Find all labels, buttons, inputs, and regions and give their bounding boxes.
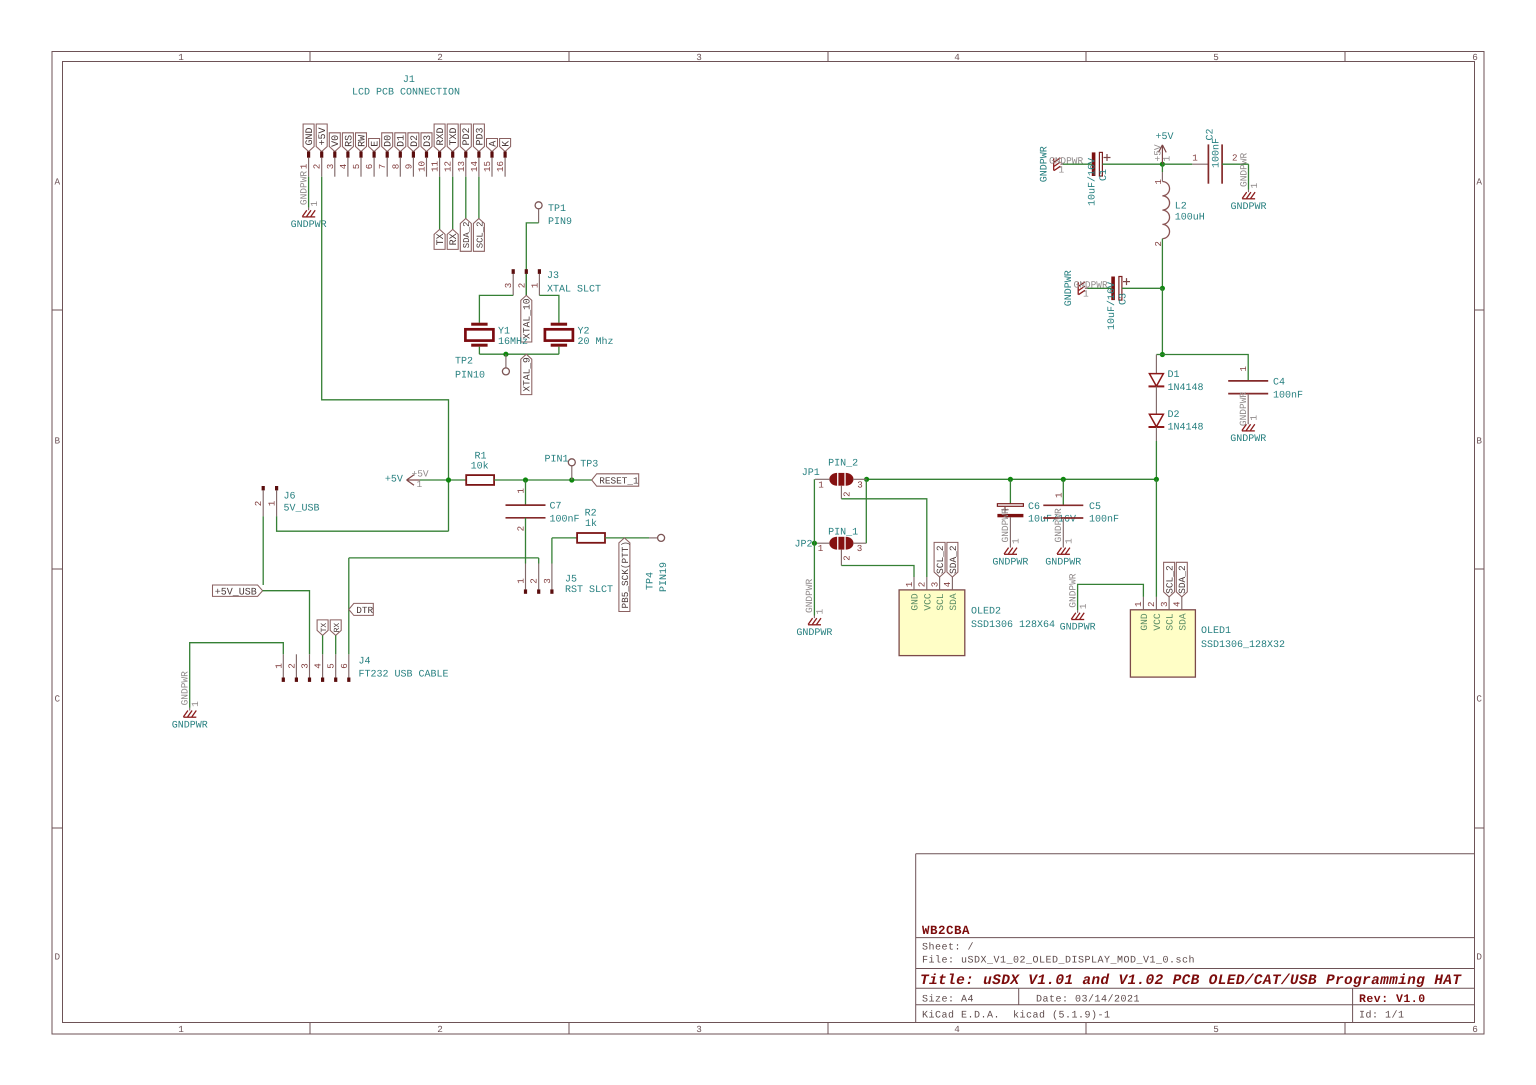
svg-text:100nF: 100nF	[550, 514, 580, 525]
svg-text:100nF: 100nF	[1089, 515, 1119, 526]
svg-text:Rev: V1.0: Rev: V1.0	[1359, 993, 1426, 1006]
svg-text:GNDPWR: GNDPWR	[796, 628, 832, 639]
svg-text:PIN9: PIN9	[548, 217, 572, 228]
svg-text:B: B	[55, 436, 61, 447]
svg-text:K: K	[502, 141, 513, 147]
svg-text:GNDPWR: GNDPWR	[1230, 202, 1266, 213]
svg-text:6: 6	[339, 663, 350, 669]
svg-text:4: 4	[942, 581, 953, 587]
svg-text:+5V: +5V	[318, 127, 329, 145]
svg-text:V0: V0	[331, 135, 342, 147]
svg-text:11: 11	[430, 161, 441, 173]
svg-text:GNDPWR: GNDPWR	[1238, 392, 1249, 427]
svg-text:4: 4	[1172, 601, 1183, 607]
svg-text:2: 2	[312, 164, 323, 170]
svg-text:Id: 1/1: Id: 1/1	[1359, 1010, 1405, 1022]
svg-text:1: 1	[178, 52, 184, 63]
svg-text:RX: RX	[333, 623, 342, 633]
svg-text:1N4148: 1N4148	[1168, 423, 1204, 434]
svg-text:3: 3	[300, 663, 311, 669]
svg-text:GNDPWR: GNDPWR	[172, 720, 208, 731]
svg-text:Y2: Y2	[578, 326, 590, 337]
svg-text:TXD: TXD	[449, 127, 460, 145]
svg-text:L2: L2	[1175, 201, 1187, 212]
svg-text:SCL_2: SCL_2	[935, 545, 946, 574]
svg-text:VCC: VCC	[922, 593, 933, 611]
svg-text:5: 5	[351, 164, 362, 170]
svg-text:16MHz: 16MHz	[498, 337, 528, 348]
svg-text:OLED1: OLED1	[1201, 626, 1231, 637]
svg-text:3: 3	[325, 164, 336, 170]
svg-text:JP1: JP1	[802, 468, 820, 479]
svg-text:3: 3	[696, 52, 702, 63]
svg-text:6: 6	[1472, 52, 1478, 63]
svg-text:2: 2	[515, 526, 526, 532]
svg-text:2: 2	[842, 555, 852, 560]
svg-text:5V_USB: 5V_USB	[284, 503, 320, 514]
svg-text:10uF/16V: 10uF/16V	[1087, 158, 1099, 206]
svg-text:GNDPWR: GNDPWR	[1060, 623, 1096, 634]
svg-text:TX: TX	[320, 623, 329, 633]
svg-text:C3: C3	[1119, 293, 1130, 305]
svg-text:10uF/16V: 10uF/16V	[1028, 514, 1076, 526]
svg-text:TX: TX	[436, 233, 447, 245]
svg-text:RESET_1: RESET_1	[599, 476, 639, 487]
svg-text:3: 3	[1159, 602, 1170, 608]
svg-text:1: 1	[1011, 538, 1022, 544]
svg-text:A: A	[488, 141, 499, 147]
svg-text:5: 5	[1213, 1024, 1219, 1035]
svg-text:A: A	[55, 177, 61, 188]
svg-text:PIN19: PIN19	[659, 562, 670, 592]
svg-text:C: C	[55, 694, 61, 705]
svg-text:TP1: TP1	[548, 204, 566, 215]
svg-text:2: 2	[529, 578, 540, 584]
svg-text:3: 3	[929, 582, 940, 588]
svg-text:3: 3	[503, 283, 514, 289]
svg-text:J1: J1	[403, 75, 415, 86]
svg-text:100uH: 100uH	[1175, 213, 1205, 224]
svg-text:4: 4	[954, 52, 960, 63]
svg-text:10uF/16V: 10uF/16V	[1106, 282, 1118, 330]
svg-text:GND: GND	[305, 127, 316, 145]
svg-text:GNDPWR: GNDPWR	[180, 671, 191, 706]
svg-text:B: B	[1476, 436, 1482, 447]
svg-text:1: 1	[1053, 492, 1064, 498]
svg-text:1: 1	[267, 500, 278, 506]
svg-text:1: 1	[1249, 183, 1260, 189]
svg-text:GNDPWR: GNDPWR	[1074, 280, 1109, 291]
svg-text:Title: uSDX V1.01 and V1.02 PC: Title: uSDX V1.01 and V1.02 PCB OLED/CAT…	[920, 973, 1462, 989]
svg-text:1: 1	[299, 163, 310, 169]
svg-text:C1: C1	[1099, 169, 1110, 181]
svg-text:GNDPWR: GNDPWR	[298, 171, 309, 206]
svg-text:SDA_2: SDA_2	[1177, 565, 1188, 594]
svg-text:SDA_2: SDA_2	[462, 222, 472, 249]
svg-text:1: 1	[529, 282, 540, 288]
svg-text:OLED2: OLED2	[971, 606, 1001, 617]
svg-text:D1: D1	[397, 135, 408, 147]
svg-text:TP2: TP2	[455, 356, 473, 367]
svg-text:2: 2	[253, 501, 264, 507]
svg-text:Date: 03/14/2021: Date: 03/14/2021	[1036, 994, 1140, 1006]
svg-text:GNDPWR: GNDPWR	[1053, 508, 1064, 543]
svg-text:1: 1	[178, 1024, 184, 1035]
svg-text:1: 1	[1133, 601, 1144, 607]
svg-text:D3: D3	[423, 135, 434, 147]
svg-text:C6: C6	[1028, 502, 1040, 513]
svg-text:GNDPWR: GNDPWR	[1045, 558, 1081, 569]
svg-text:3: 3	[696, 1024, 702, 1035]
svg-text:D2: D2	[1168, 410, 1180, 421]
svg-text:PIN_2: PIN_2	[828, 459, 858, 470]
svg-text:2: 2	[917, 582, 928, 588]
svg-text:D1: D1	[1168, 370, 1180, 381]
svg-text:PIN10: PIN10	[455, 370, 485, 381]
svg-text:2: 2	[842, 491, 852, 496]
svg-text:12: 12	[443, 161, 454, 172]
svg-text:KiCad E.D.A. kicad (5.1.9)-1: KiCad E.D.A. kicad (5.1.9)-1	[922, 1010, 1111, 1022]
svg-text:2: 2	[1146, 602, 1157, 608]
svg-text:1: 1	[1239, 366, 1249, 371]
svg-text:File: uSDX_V1_02_OLED_DISPLAY_: File: uSDX_V1_02_OLED_DISPLAY_MOD_V1_0.s…	[922, 955, 1195, 967]
svg-text:SDA: SDA	[1177, 613, 1188, 631]
svg-text:GNDPWR: GNDPWR	[1230, 434, 1266, 445]
svg-text:JP2: JP2	[795, 539, 813, 550]
svg-text:3: 3	[857, 543, 863, 554]
svg-text:3: 3	[542, 578, 553, 584]
svg-text:C7: C7	[550, 501, 562, 512]
svg-text:3: 3	[857, 479, 863, 490]
svg-text:SCL_2: SCL_2	[1165, 565, 1176, 594]
svg-text:R2: R2	[585, 508, 597, 519]
svg-text:1: 1	[818, 543, 824, 554]
svg-text:10k: 10k	[471, 461, 489, 473]
svg-text:4: 4	[954, 1024, 960, 1035]
svg-text:VCC: VCC	[1152, 613, 1163, 631]
svg-text:16: 16	[495, 161, 506, 172]
svg-text:4: 4	[313, 663, 324, 669]
svg-text:Sheet: /: Sheet: /	[922, 942, 974, 954]
svg-text:PB5_SCK(PTT): PB5_SCK(PTT)	[620, 541, 631, 609]
svg-text:RX: RX	[449, 233, 460, 245]
svg-text:C: C	[1476, 694, 1482, 705]
svg-text:D0: D0	[384, 135, 395, 147]
svg-text:LCD PCB CONNECTION: LCD PCB CONNECTION	[352, 87, 460, 98]
svg-text:2: 2	[286, 663, 297, 669]
svg-text:D: D	[1476, 952, 1482, 963]
svg-text:RW: RW	[357, 135, 368, 147]
svg-text:SDA_2: SDA_2	[948, 545, 959, 574]
svg-text:1: 1	[1078, 603, 1089, 609]
svg-text:1: 1	[818, 479, 824, 490]
svg-text:D: D	[55, 952, 61, 963]
svg-text:6: 6	[364, 164, 375, 170]
svg-text:8: 8	[390, 164, 401, 170]
svg-text:PD3: PD3	[475, 127, 486, 145]
svg-text:TP3: TP3	[580, 459, 598, 470]
svg-text:J4: J4	[359, 657, 371, 668]
svg-text:1: 1	[515, 488, 526, 494]
svg-text:GND: GND	[1139, 613, 1150, 631]
svg-text:PD2: PD2	[462, 127, 473, 145]
svg-text:5: 5	[1213, 52, 1219, 63]
svg-text:SCL_2: SCL_2	[475, 222, 485, 249]
svg-text:SCL: SCL	[935, 593, 946, 611]
svg-text:XTAL_10: XTAL_10	[522, 298, 533, 339]
svg-text:RXD: RXD	[436, 127, 447, 145]
svg-text:FT232 USB CABLE: FT232 USB CABLE	[359, 669, 449, 680]
svg-text:PIN1: PIN1	[544, 455, 568, 466]
svg-text:100nF: 100nF	[1211, 138, 1222, 168]
svg-text:4: 4	[338, 163, 349, 169]
svg-text:SSD1306 128X64: SSD1306 128X64	[971, 620, 1055, 631]
svg-text:9: 9	[403, 164, 414, 170]
svg-text:WB2CBA: WB2CBA	[922, 924, 970, 938]
svg-text:SSD1306_128X32: SSD1306_128X32	[1201, 640, 1285, 651]
svg-text:100nF: 100nF	[1273, 390, 1303, 401]
svg-text:1: 1	[1059, 165, 1065, 176]
svg-text:+5V: +5V	[385, 475, 403, 486]
svg-text:2: 2	[437, 52, 443, 63]
svg-text:1: 1	[190, 701, 201, 707]
svg-text:GNDPWR: GNDPWR	[1000, 508, 1011, 543]
svg-text:2: 2	[1232, 152, 1238, 163]
svg-text:20 Mhz: 20 Mhz	[578, 336, 614, 348]
svg-text:Size: A4: Size: A4	[922, 994, 974, 1006]
svg-text:SDA: SDA	[948, 593, 959, 611]
svg-text:2: 2	[437, 1024, 443, 1035]
svg-text:J3: J3	[547, 271, 559, 282]
svg-text:1: 1	[1083, 289, 1089, 300]
svg-text:XTAL SLCT: XTAL SLCT	[547, 285, 601, 296]
svg-text:13: 13	[456, 161, 467, 172]
svg-text:D2: D2	[410, 135, 421, 147]
svg-text:1: 1	[1162, 156, 1173, 162]
svg-text:1: 1	[1064, 538, 1075, 544]
svg-text:DTR: DTR	[356, 605, 373, 616]
svg-text:C4: C4	[1273, 378, 1285, 389]
svg-text:+5V: +5V	[1155, 132, 1173, 143]
svg-text:XTAL_9: XTAL_9	[522, 357, 533, 392]
svg-text:14: 14	[469, 161, 480, 173]
svg-text:C5: C5	[1089, 502, 1101, 513]
svg-text:E: E	[371, 141, 382, 147]
svg-text:1: 1	[273, 663, 284, 669]
svg-text:1k: 1k	[585, 518, 597, 530]
svg-text:A: A	[1476, 177, 1482, 188]
svg-text:GNDPWR: GNDPWR	[1238, 152, 1249, 187]
svg-text:J5: J5	[565, 574, 577, 585]
svg-text:RST SLCT: RST SLCT	[565, 585, 613, 596]
svg-text:GNDPWR: GNDPWR	[804, 578, 815, 613]
svg-text:GNDPWR: GNDPWR	[1049, 156, 1084, 167]
svg-text:+5V_USB: +5V_USB	[215, 587, 257, 598]
svg-text:GNDPWR: GNDPWR	[1067, 573, 1078, 608]
svg-text:6: 6	[1472, 1024, 1478, 1035]
svg-text:1N4148: 1N4148	[1168, 383, 1204, 394]
svg-text:GND: GND	[910, 593, 921, 611]
svg-text:J6: J6	[284, 492, 296, 503]
svg-text:1: 1	[309, 201, 320, 207]
svg-text:1: 1	[516, 578, 527, 584]
svg-text:1: 1	[1192, 152, 1198, 163]
svg-text:Y1: Y1	[498, 326, 510, 337]
svg-text:GNDPWR: GNDPWR	[992, 558, 1028, 569]
svg-text:1: 1	[1249, 415, 1260, 421]
svg-text:1: 1	[815, 609, 826, 615]
svg-text:TP4: TP4	[646, 572, 657, 590]
svg-text:5: 5	[326, 663, 337, 669]
svg-text:15: 15	[482, 161, 493, 172]
svg-text:10: 10	[417, 161, 428, 172]
svg-text:SCL: SCL	[1165, 613, 1176, 631]
svg-text:1: 1	[904, 581, 915, 587]
svg-text:RS: RS	[344, 135, 355, 147]
svg-text:7: 7	[377, 164, 388, 170]
